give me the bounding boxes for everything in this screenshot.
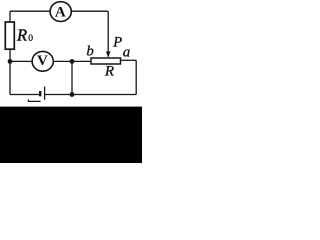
svg-text:R: R bbox=[16, 25, 27, 44]
svg-text:R: R bbox=[104, 64, 114, 80]
ammeter A1 bbox=[50, 2, 71, 22]
wire right-top vertical (slider feed) bbox=[107, 11, 109, 52]
voltmeter V1 bbox=[32, 51, 53, 71]
rheostat R body bbox=[91, 58, 121, 64]
wire top horizontal bbox=[10, 10, 108, 12]
svg-text:P: P bbox=[112, 35, 122, 51]
svg-text:0: 0 bbox=[28, 34, 33, 44]
black censor band bbox=[0, 107, 142, 163]
resistor R0 bbox=[5, 22, 14, 49]
stray hook mark below battery bbox=[28, 99, 40, 101]
wire left vertical bbox=[9, 11, 11, 94]
svg-text:a: a bbox=[123, 45, 131, 61]
junction dot middle bottom bbox=[70, 92, 75, 97]
wire bottom horizontal left of battery bbox=[10, 94, 40, 96]
battery short plate bbox=[39, 91, 41, 96]
junction dot middle top bbox=[70, 59, 75, 64]
svg-text:b: b bbox=[86, 44, 93, 60]
wire middle vertical (junction to bottom) bbox=[71, 61, 73, 94]
wire voltmeter branch horizontal bbox=[10, 60, 91, 62]
slider arrowhead P bbox=[106, 51, 110, 58]
battery long plate bbox=[44, 87, 46, 100]
svg-text:V: V bbox=[37, 53, 48, 69]
wire bottom horizontal right of battery bbox=[45, 94, 136, 96]
wire rheostat a-side to right vertical bbox=[121, 59, 137, 61]
svg-text:A: A bbox=[55, 5, 66, 21]
wire right vertical bbox=[135, 60, 137, 94]
junction dot left (voltmeter tap) bbox=[8, 59, 13, 64]
